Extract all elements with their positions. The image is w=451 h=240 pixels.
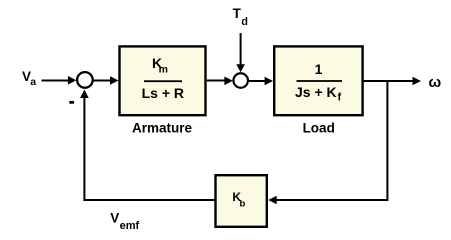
wire: feedback horizontal from Kb to left corner <box>83 199 214 201</box>
minus sign at S1 <box>69 101 74 104</box>
svg-text:d: d <box>241 16 248 28</box>
svg-text:Armature: Armature <box>132 121 193 136</box>
svg-text:b: b <box>240 199 246 210</box>
input label Va <box>22 69 36 88</box>
wire: takeoff vertical down from output node <box>386 80 388 201</box>
wire: feedback left vertical up into S1 (with arrowhead) <box>80 90 89 202</box>
wire: Td down into S2 (with arrowhead) <box>236 33 245 72</box>
block Kb <box>216 175 267 227</box>
svg-text:Ls + R: Ls + R <box>142 85 184 101</box>
svg-text:ω: ω <box>429 74 442 91</box>
label Vemf <box>110 210 139 231</box>
block Load transfer function 1/(Js+Kf) <box>274 46 362 115</box>
svg-text:m: m <box>159 63 168 75</box>
block Armature transfer function Km/(Ls+R) <box>120 46 206 115</box>
svg-text:emf: emf <box>120 220 140 232</box>
svg-text:Load: Load <box>303 121 335 136</box>
disturbance label Td <box>233 6 248 28</box>
summing junction S2 <box>233 73 248 88</box>
svg-text:1: 1 <box>315 61 323 77</box>
wire: S2 to Load block (with arrowhead) <box>249 77 273 86</box>
wire: Va to summing junction S1 (with arrowhead) <box>42 76 77 85</box>
wire: feedback horizontal into Kb (with arrowhead) <box>268 196 386 205</box>
wire: Armature to summing junction S2 (with arrowhead) <box>207 77 233 86</box>
svg-text:V: V <box>110 210 119 225</box>
wire: Load to output omega (with arrowhead) <box>363 77 421 86</box>
svg-text:Js + K: Js + K <box>295 84 337 100</box>
summing junction S1 <box>77 72 93 88</box>
svg-text:f: f <box>338 91 342 103</box>
svg-text:a: a <box>30 76 36 88</box>
wire: S1 to Armature block (with arrowhead) <box>94 76 119 85</box>
